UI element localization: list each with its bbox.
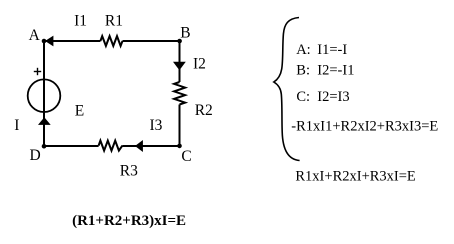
arrow I3 (left) bbox=[135, 140, 143, 152]
svg-text:I2=-I1: I2=-I1 bbox=[317, 62, 354, 78]
node B bbox=[177, 39, 182, 44]
svg-text:R3: R3 bbox=[120, 163, 138, 180]
arrow I2 (down) bbox=[173, 62, 186, 70]
svg-text:I2: I2 bbox=[193, 56, 206, 73]
svg-text:B: B bbox=[180, 25, 190, 42]
svg-text:C: C bbox=[181, 148, 191, 165]
voltage source E bbox=[28, 79, 61, 112]
svg-text:B:: B: bbox=[296, 62, 310, 78]
svg-text:C:: C: bbox=[296, 89, 310, 105]
svg-text:D: D bbox=[30, 147, 41, 164]
wire bottom C-D bbox=[44, 145, 180, 147]
svg-text:I1: I1 bbox=[74, 12, 87, 29]
svg-text:-R1xI1+R2xI2+R3xI3=E: -R1xI1+R2xI2+R3xI3=E bbox=[291, 118, 438, 134]
node C bbox=[177, 144, 182, 149]
svg-text:R2: R2 bbox=[195, 102, 213, 119]
svg-text:I1=-I: I1=-I bbox=[317, 42, 347, 58]
svg-text:I2=I3: I2=I3 bbox=[317, 89, 349, 105]
curly brace bbox=[274, 18, 300, 161]
svg-text:A: A bbox=[29, 27, 41, 44]
arrow I1 (left, at node A) bbox=[45, 36, 53, 47]
node D bbox=[42, 144, 47, 149]
svg-text:A:: A: bbox=[296, 42, 311, 58]
svg-text:R1: R1 bbox=[105, 12, 123, 29]
svg-text:(R1+R2+R3)xI=E: (R1+R2+R3)xI=E bbox=[72, 213, 186, 229]
resistor R2 bbox=[174, 82, 185, 105]
wire top A-B bbox=[44, 40, 180, 42]
svg-text:I3: I3 bbox=[150, 117, 163, 134]
wire left D-A bbox=[43, 41, 45, 146]
plus sign of source bbox=[34, 68, 41, 75]
arrow I (up) bbox=[38, 117, 51, 125]
svg-text:I: I bbox=[14, 117, 19, 134]
node A bbox=[42, 39, 47, 44]
svg-text:R1xI+R2xI+R3xI=E: R1xI+R2xI+R3xI=E bbox=[295, 168, 416, 184]
wire right B-C bbox=[179, 41, 181, 146]
resistor R3 bbox=[99, 141, 123, 151]
resistor R1 bbox=[100, 36, 122, 46]
svg-text:E: E bbox=[75, 102, 84, 119]
